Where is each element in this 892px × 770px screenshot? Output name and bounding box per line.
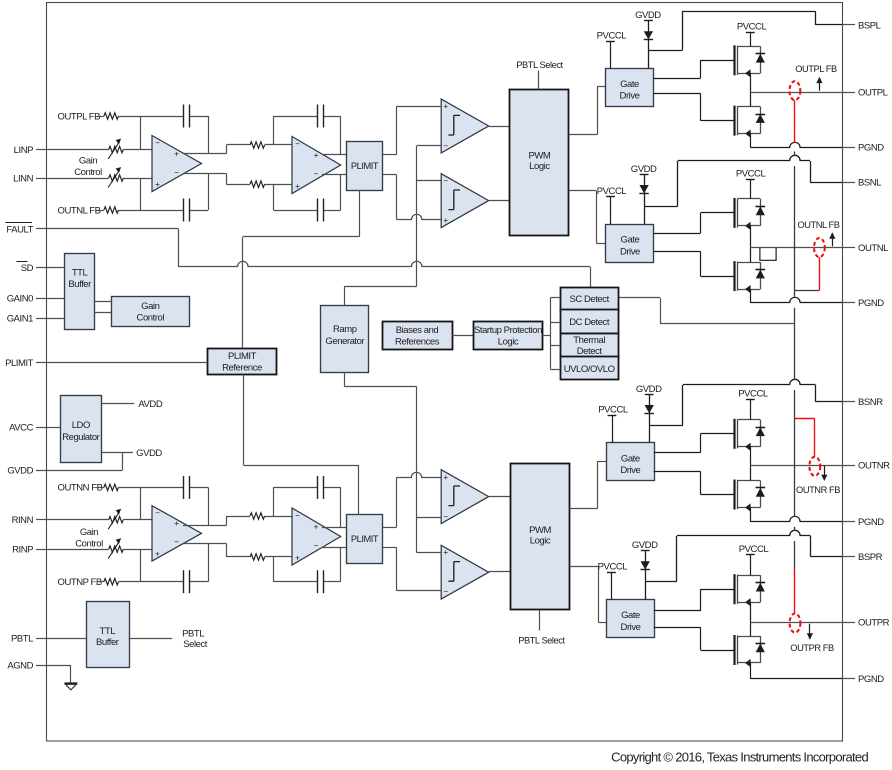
svg-text:LDO: LDO [72, 420, 90, 431]
svg-text:Control: Control [137, 312, 165, 323]
svg-text:RINP: RINP [12, 544, 33, 555]
svg-text:GVDD: GVDD [136, 448, 162, 459]
svg-text:PWM: PWM [529, 525, 551, 536]
svg-text:GVDD: GVDD [631, 164, 657, 175]
svg-text:PVCCL: PVCCL [739, 544, 769, 555]
svg-text:Drive: Drive [620, 91, 640, 102]
svg-text:Control: Control [75, 538, 103, 549]
svg-text:Logic: Logic [498, 336, 519, 347]
svg-text:Buffer: Buffer [96, 637, 119, 648]
svg-text:−: − [314, 169, 319, 178]
svg-text:AGND: AGND [7, 661, 33, 672]
svg-text:LINN: LINN [13, 173, 33, 184]
svg-text:Thermal: Thermal [573, 335, 605, 346]
svg-text:Reference: Reference [222, 362, 262, 373]
svg-text:−: − [295, 511, 300, 520]
svg-text:−: − [174, 538, 179, 547]
svg-text:−: − [443, 142, 448, 151]
svg-text:PLIMIT: PLIMIT [351, 161, 379, 171]
svg-text:PLIMIT: PLIMIT [351, 534, 379, 544]
svg-text:OUTNR FB: OUTNR FB [796, 485, 840, 495]
svg-text:PLIMIT: PLIMIT [228, 351, 257, 362]
svg-text:+: + [443, 548, 448, 557]
svg-text:Gate: Gate [620, 79, 639, 90]
svg-text:LINP: LINP [14, 145, 33, 156]
svg-text:GVDD: GVDD [632, 540, 658, 551]
svg-text:Drive: Drive [620, 246, 640, 257]
svg-text:−: − [314, 541, 319, 550]
svg-text:−: − [443, 176, 448, 185]
svg-text:−: − [174, 168, 179, 177]
svg-text:PGND: PGND [858, 517, 884, 528]
svg-text:PGND: PGND [858, 143, 884, 154]
svg-text:+: + [443, 216, 448, 225]
svg-text:BSNL: BSNL [858, 177, 881, 188]
svg-text:PGND: PGND [858, 674, 884, 685]
svg-text:Logic: Logic [529, 161, 550, 172]
svg-text:FAULT: FAULT [6, 224, 33, 235]
svg-text:Gate: Gate [621, 235, 640, 246]
svg-text:AVDD: AVDD [138, 399, 162, 410]
svg-text:PLIMIT: PLIMIT [5, 358, 34, 369]
svg-text:PVCCL: PVCCL [736, 169, 766, 180]
svg-text:−: − [155, 139, 160, 148]
svg-text:PVCCL: PVCCL [738, 388, 768, 399]
svg-text:OUTPL FB: OUTPL FB [795, 64, 837, 74]
svg-text:+: + [155, 550, 160, 559]
svg-text:Gain: Gain [79, 155, 97, 166]
svg-text:OUTNL FB: OUTNL FB [797, 220, 839, 230]
svg-text:OUTNN FB: OUTNN FB [58, 483, 103, 494]
svg-text:PVCCL: PVCCL [598, 561, 628, 572]
svg-text:TTL: TTL [100, 626, 116, 637]
svg-text:OUTPL: OUTPL [858, 87, 888, 98]
svg-text:Gate: Gate [621, 453, 640, 464]
svg-text:Copyright © 2016, Texas Instru: Copyright © 2016, Texas Instruments Inco… [611, 750, 868, 765]
svg-text:OUTNL: OUTNL [858, 243, 888, 254]
svg-text:SC Detect: SC Detect [570, 294, 610, 305]
svg-text:+: + [295, 554, 300, 563]
svg-text:PWM: PWM [528, 151, 550, 162]
svg-text:+: + [443, 473, 448, 482]
svg-text:Startup Protection: Startup Protection [474, 325, 542, 336]
svg-text:Gain: Gain [141, 301, 159, 312]
svg-text:PBTL Select: PBTL Select [518, 635, 565, 645]
svg-text:References: References [395, 336, 440, 347]
svg-text:SD: SD [21, 263, 34, 274]
svg-text:GVDD: GVDD [636, 384, 662, 395]
svg-text:−: − [443, 513, 448, 522]
svg-text:Gain: Gain [80, 527, 98, 538]
svg-text:+: + [295, 182, 300, 191]
svg-text:Ramp: Ramp [333, 324, 357, 335]
svg-text:OUTNP FB: OUTNP FB [58, 577, 102, 588]
svg-text:Biases and: Biases and [396, 325, 439, 336]
svg-text:DC Detect: DC Detect [569, 317, 610, 328]
svg-text:AVCC: AVCC [9, 422, 33, 433]
svg-text:−: − [295, 140, 300, 149]
svg-text:PVCCL: PVCCL [597, 186, 627, 197]
svg-text:OUTNL FB: OUTNL FB [58, 205, 101, 216]
svg-text:PGND: PGND [858, 298, 884, 309]
svg-text:Buffer: Buffer [68, 279, 91, 290]
svg-text:Drive: Drive [621, 622, 641, 633]
svg-text:PBTL: PBTL [182, 628, 204, 639]
svg-text:UVLO/OVLO: UVLO/OVLO [564, 364, 615, 375]
svg-text:Detect: Detect [577, 346, 603, 357]
svg-text:GVDD: GVDD [635, 10, 661, 21]
svg-text:Generator: Generator [325, 336, 364, 347]
svg-text:+: + [174, 149, 179, 158]
svg-text:Control: Control [74, 167, 102, 178]
svg-text:TTL: TTL [72, 267, 88, 278]
svg-text:PVCCL: PVCCL [598, 405, 628, 416]
svg-text:GAIN1: GAIN1 [7, 313, 33, 324]
svg-text:+: + [314, 151, 319, 160]
svg-text:PVCCL: PVCCL [737, 21, 767, 32]
svg-text:Gate: Gate [621, 610, 640, 621]
svg-text:+: + [443, 102, 448, 111]
svg-text:BSPL: BSPL [858, 20, 881, 31]
svg-text:PBTL Select: PBTL Select [516, 60, 563, 70]
svg-text:Regulator: Regulator [62, 432, 99, 443]
svg-text:OUTPR: OUTPR [858, 618, 890, 629]
svg-text:BSPR: BSPR [858, 552, 883, 563]
svg-text:+: + [314, 522, 319, 531]
svg-text:OUTNR: OUTNR [858, 461, 890, 472]
svg-text:OUTPR FB: OUTPR FB [790, 643, 834, 653]
svg-text:−: − [443, 587, 448, 596]
svg-text:OUTPL FB: OUTPL FB [58, 111, 101, 122]
svg-text:PBTL: PBTL [11, 633, 33, 644]
svg-text:BSNR: BSNR [858, 397, 883, 408]
svg-text:Drive: Drive [620, 465, 640, 476]
svg-text:RINN: RINN [12, 515, 34, 526]
svg-text:GAIN0: GAIN0 [7, 294, 33, 305]
svg-text:+: + [174, 519, 179, 528]
svg-text:−: − [155, 509, 160, 518]
svg-text:+: + [155, 180, 160, 189]
svg-text:Logic: Logic [530, 535, 551, 546]
svg-text:GVDD: GVDD [7, 466, 33, 477]
svg-text:PVCCL: PVCCL [597, 30, 627, 41]
svg-text:Select: Select [183, 639, 208, 650]
